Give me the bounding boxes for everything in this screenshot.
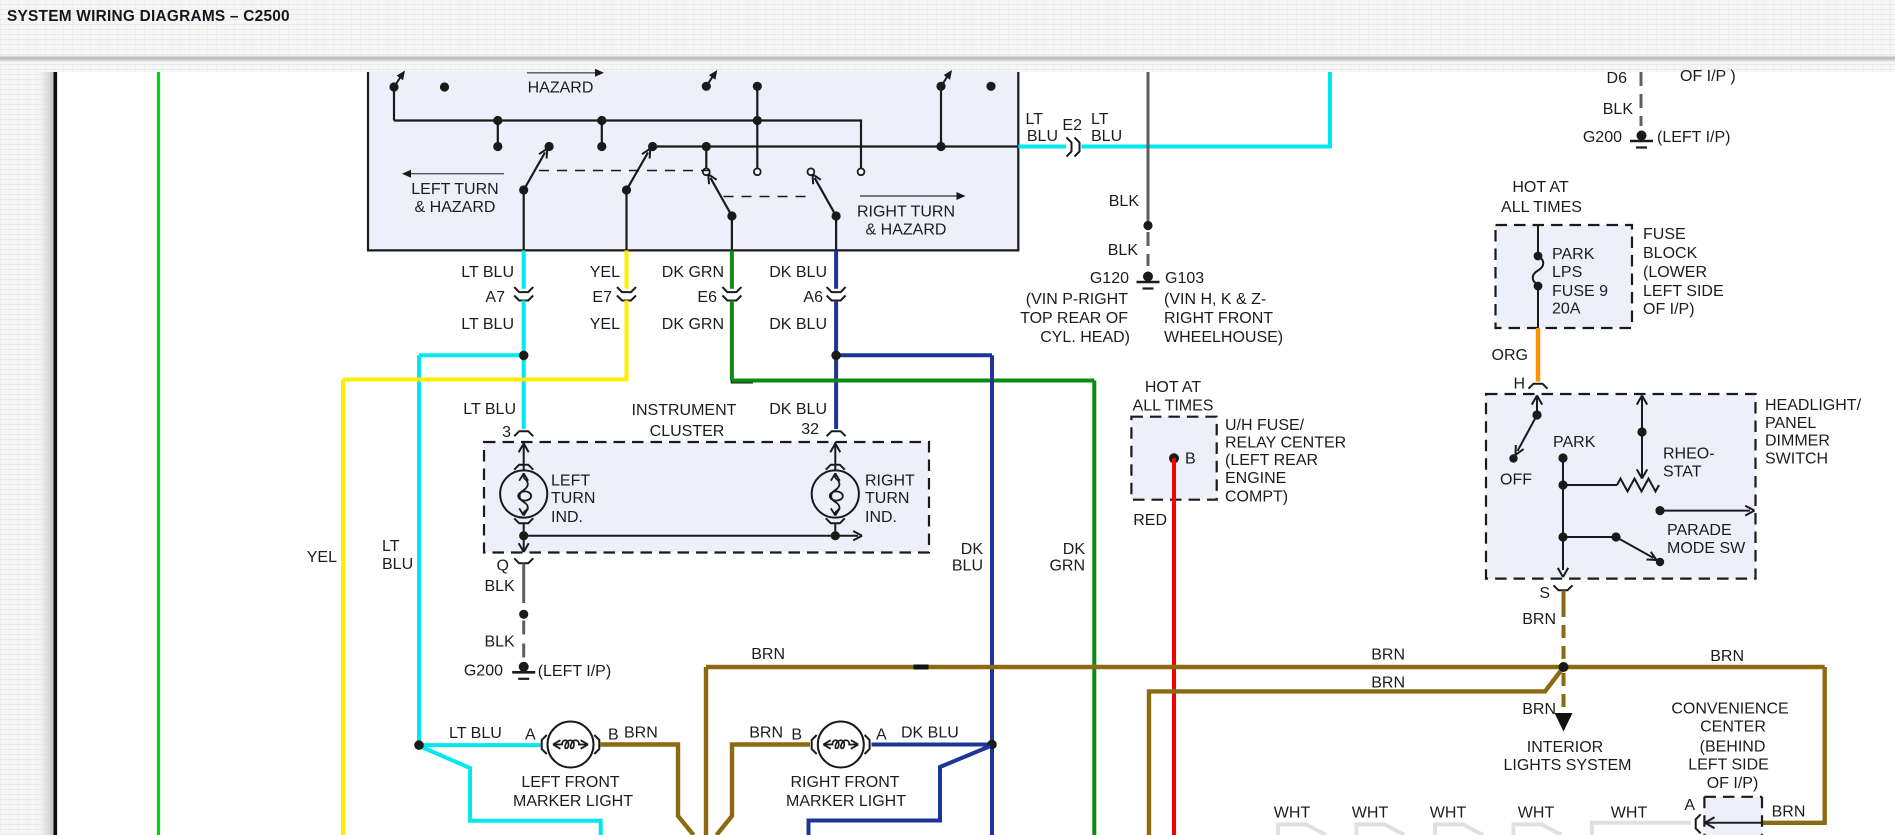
svg-text:MARKER LIGHT: MARKER LIGHT: [786, 793, 906, 810]
node: left ind lower junction: [519, 531, 528, 540]
svg-text:DK BLU: DK BLU: [769, 264, 827, 281]
wire BLK: [522, 564, 525, 604]
convenience center box: [1704, 797, 1762, 835]
svg-text:WHT: WHT: [1274, 805, 1311, 822]
svg-text:RIGHT FRONT: RIGHT FRONT: [790, 774, 899, 791]
wire DK BLU from switch: [834, 250, 838, 288]
connector E7: [617, 287, 636, 292]
svg-text:& HAZARD: & HAZARD: [415, 199, 496, 216]
svg-text:(VIN P-RIGHT: (VIN P-RIGHT: [1026, 291, 1128, 308]
wire BRN solid+dashed down: [1562, 591, 1566, 605]
svg-text:MODE SW: MODE SW: [1667, 540, 1746, 557]
svg-text:IND.: IND.: [551, 509, 583, 526]
svg-text:A: A: [525, 727, 536, 744]
wire YEL from switch: [625, 250, 629, 288]
right front marker light bulb: [812, 735, 817, 754]
wire LT BLU jog down: [421, 747, 471, 821]
svg-text:WHT: WHT: [1430, 805, 1467, 822]
right arm 2: [832, 211, 841, 220]
svg-text:RIGHT FRONT: RIGHT FRONT: [1164, 310, 1273, 327]
svg-text:RIGHT TURN: RIGHT TURN: [857, 204, 955, 221]
arm output wires: [523, 190, 525, 250]
wire BLK vertical: [1147, 72, 1150, 221]
svg-text:TURN: TURN: [865, 490, 909, 507]
wire LT BLU to marker: [419, 743, 541, 747]
svg-text:B: B: [608, 727, 619, 744]
svg-text:CLUSTER: CLUSTER: [650, 423, 725, 440]
svg-text:BLK: BLK: [1108, 242, 1139, 259]
instrument cluster box: [484, 442, 929, 553]
svg-text:E6: E6: [697, 289, 717, 306]
fuse PARK LPS FUSE 9 20A: [1537, 225, 1539, 255]
svg-text:LT BLU: LT BLU: [461, 316, 514, 333]
connector 32: [827, 431, 846, 436]
wire DK GRN from switch: [730, 250, 734, 288]
svg-text:TOP REAR OF: TOP REAR OF: [1020, 310, 1128, 327]
wire: feed to bus1: [393, 87, 395, 121]
svg-text:A: A: [1684, 797, 1695, 814]
node splice: [1143, 221, 1152, 230]
svg-text:BLU: BLU: [952, 558, 983, 575]
wire WHT stubs: [1278, 824, 1326, 835]
connector A6: [827, 287, 846, 292]
U/H fuse/relay center box: [1131, 417, 1216, 500]
node BRN splice: [1559, 662, 1569, 672]
wire YEL cross + left rail: [343, 378, 627, 382]
node: switch common: [1532, 410, 1541, 419]
wire BLK dashed: [1147, 232, 1150, 266]
svg-text:BRN: BRN: [749, 725, 783, 742]
svg-text:20A: 20A: [1552, 301, 1581, 318]
svg-text:(BEHIND: (BEHIND: [1700, 739, 1766, 756]
label HAZARD with arrow: [527, 72, 597, 74]
svg-text:TURN: TURN: [551, 490, 595, 507]
svg-text:LT: LT: [1026, 111, 1044, 128]
left margin shadow: [37, 72, 54, 835]
wire: bright green rail: [157, 72, 160, 835]
svg-text:BRN: BRN: [624, 725, 658, 742]
node DK BLU junction at marker: [987, 740, 997, 750]
svg-text:3: 3: [502, 424, 511, 441]
OFF arm: [1518, 415, 1538, 451]
node B: [1169, 453, 1179, 463]
svg-text:CYL. HEAD): CYL. HEAD): [1040, 329, 1130, 346]
svg-text:ALL TIMES: ALL TIMES: [1501, 199, 1582, 216]
svg-text:S: S: [1539, 585, 1550, 602]
svg-text:DK GRN: DK GRN: [662, 264, 724, 281]
wire ORG: [1536, 328, 1540, 382]
wire BRN bus: [706, 665, 1825, 669]
svg-text:(LEFT REAR: (LEFT REAR: [1225, 452, 1318, 469]
svg-text:ALL TIMES: ALL TIMES: [1133, 398, 1214, 415]
svg-text:CONVENIENCE: CONVENIENCE: [1671, 701, 1788, 718]
ground G200 left I/P: [519, 662, 529, 672]
svg-text:32: 32: [801, 421, 819, 438]
black tick on bus: [914, 665, 929, 670]
svg-text:BLOCK: BLOCK: [1643, 245, 1698, 262]
svg-text:WHT: WHT: [1352, 805, 1389, 822]
svg-text:YEL: YEL: [307, 549, 337, 566]
svg-text:LEFT SIDE: LEFT SIDE: [1688, 757, 1769, 774]
svg-text:LEFT: LEFT: [551, 473, 590, 490]
svg-text:Q: Q: [497, 558, 509, 575]
svg-text:BLU: BLU: [1091, 128, 1122, 145]
svg-text:G200: G200: [464, 663, 503, 680]
node LT BLU split: [414, 740, 424, 750]
open contact (no wire): [808, 168, 815, 175]
svg-text:DK GRN: DK GRN: [662, 316, 724, 333]
fuse block box: [1496, 225, 1633, 328]
svg-text:G200: G200: [1583, 129, 1622, 146]
svg-text:LT: LT: [382, 538, 400, 555]
svg-text:H: H: [1513, 376, 1525, 393]
svg-text:BRN: BRN: [1710, 648, 1744, 665]
mechanical linkage dashes: [539, 170, 710, 172]
svg-text:DK BLU: DK BLU: [769, 401, 827, 418]
node rheostat tap: [1558, 480, 1567, 489]
svg-text:RHEO-: RHEO-: [1663, 446, 1715, 463]
hazard feed dot + arm (top left): [389, 82, 398, 91]
svg-text:OFF: OFF: [1500, 472, 1532, 489]
rheostat wiper arrow: [1641, 397, 1643, 477]
svg-text:BRN: BRN: [1772, 804, 1806, 821]
svg-text:BRN: BRN: [1522, 611, 1556, 628]
connector 3: [514, 431, 533, 436]
svg-text:BRN: BRN: [1522, 701, 1556, 718]
arrow into convenience center: [1707, 822, 1763, 824]
svg-text:A6: A6: [803, 289, 823, 306]
svg-text:PARADE: PARADE: [1667, 522, 1732, 539]
svg-text:B: B: [1185, 451, 1196, 468]
svg-text:ENGINE: ENGINE: [1225, 470, 1286, 487]
svg-text:A: A: [876, 727, 887, 744]
wire DK BLU from right marker: [872, 743, 993, 747]
svg-text:COMPT): COMPT): [1225, 489, 1288, 506]
svg-text:DK: DK: [1063, 541, 1086, 558]
svg-text:RED: RED: [1133, 512, 1167, 529]
svg-text:OF I/P): OF I/P): [1707, 775, 1759, 792]
svg-text:FUSE: FUSE: [1643, 226, 1686, 243]
wire LT BLU to E2: [1018, 145, 1066, 149]
svg-text:BLK: BLK: [1109, 193, 1140, 210]
turn/hazard switch box: [368, 71, 1018, 250]
bus1 junction dots: [493, 116, 502, 125]
svg-text:OF I/P): OF I/P): [1643, 301, 1695, 318]
wire WHT to convenience center: [1592, 823, 1691, 835]
input arrow from H: [1536, 397, 1538, 415]
svg-text:G120: G120: [1090, 270, 1129, 287]
svg-text:DK: DK: [961, 541, 984, 558]
svg-text:PANEL: PANEL: [1765, 415, 1816, 432]
svg-text:WHEELHOUSE): WHEELHOUSE): [1164, 329, 1283, 346]
svg-text:LEFT TURN: LEFT TURN: [411, 181, 498, 198]
wire LT BLU up to page top: [1082, 72, 1331, 147]
output arrow S: [1563, 568, 1568, 577]
svg-text:RELAY CENTER: RELAY CENTER: [1225, 435, 1346, 452]
wire LT BLU branch left: [419, 353, 524, 357]
connector E2: [1067, 138, 1072, 157]
wire LT BLU down-left rail: [417, 355, 421, 747]
svg-text:INSTRUMENT: INSTRUMENT: [632, 402, 737, 419]
svg-text:GRN: GRN: [1049, 558, 1085, 575]
svg-text:HAZARD: HAZARD: [528, 80, 594, 97]
svg-text:LT BLU: LT BLU: [449, 725, 502, 742]
connector A7: [514, 287, 533, 292]
ground G200 right: [1637, 131, 1647, 141]
svg-text:E2: E2: [1062, 117, 1082, 134]
svg-text:(LEFT I/P): (LEFT I/P): [538, 663, 612, 680]
bus2: [653, 145, 1019, 147]
hazard arm (right): [936, 82, 945, 91]
svg-text:HOT AT: HOT AT: [1145, 379, 1202, 396]
page left border: [54, 72, 58, 835]
svg-text:LIGHTS SYSTEM: LIGHTS SYSTEM: [1503, 757, 1631, 774]
bus1: [394, 119, 861, 121]
groove band: [0, 56, 1895, 62]
svg-text:U/H FUSE/: U/H FUSE/: [1225, 417, 1305, 434]
label LEFT TURN & HAZARD with arrow: [409, 173, 504, 175]
cluster entry at 523.7: [523, 442, 525, 470]
node splice: [519, 610, 528, 619]
wire DK GRN cross + right rail: [732, 379, 1094, 383]
svg-text:PARK: PARK: [1552, 246, 1595, 263]
wire LT BLU from switch: [522, 250, 526, 288]
svg-text:STAT: STAT: [1663, 464, 1702, 481]
svg-text:D6: D6: [1607, 70, 1628, 87]
svg-text:YEL: YEL: [590, 316, 620, 333]
svg-text:DK BLU: DK BLU: [769, 316, 827, 333]
svg-text:BLK: BLK: [484, 634, 515, 651]
bus1 corner down to open contact: [860, 119, 862, 168]
wire BRN bus left leg down: [704, 667, 708, 835]
stub contacts from bus1: [497, 121, 499, 147]
down arrow to cluster edge (left): [523, 536, 525, 551]
svg-text:BRN: BRN: [1371, 647, 1405, 664]
node: right ind lower junction: [831, 531, 840, 540]
svg-text:PARK: PARK: [1553, 434, 1596, 451]
svg-text:CENTER: CENTER: [1700, 719, 1766, 736]
svg-text:(VIN H, K & Z-: (VIN H, K & Z-: [1164, 291, 1266, 308]
svg-text:FUSE 9: FUSE 9: [1552, 283, 1608, 300]
svg-text:BRN: BRN: [1371, 675, 1405, 692]
turn indicator bulb at 835.3: [812, 470, 859, 517]
wire BLK dashed D6: [1640, 72, 1643, 126]
svg-text:SYSTEM WIRING DIAGRAMS – C2500: SYSTEM WIRING DIAGRAMS – C2500: [7, 8, 290, 25]
svg-text:B: B: [791, 727, 802, 744]
wire BRN bus corner down to convenience center: [1763, 667, 1825, 823]
svg-text:WHT: WHT: [1518, 805, 1555, 822]
svg-text:BRN: BRN: [751, 646, 785, 663]
parade mode contact + arrow: [1655, 506, 1664, 515]
stub from bus2 to open contact: [705, 147, 707, 169]
left turn arm 2: [622, 185, 631, 194]
ground G120/G103: [1143, 272, 1153, 282]
svg-text:E7: E7: [592, 289, 612, 306]
svg-text:ORG: ORG: [1492, 347, 1528, 364]
svg-text:(LEFT I/P): (LEFT I/P): [1657, 129, 1731, 146]
svg-text:BLK: BLK: [1603, 101, 1634, 118]
svg-text:DIMMER: DIMMER: [1765, 433, 1830, 450]
turn indicator bulb at 523.7: [500, 470, 547, 517]
svg-text:& HAZARD: & HAZARD: [866, 222, 947, 239]
svg-text:LEFT FRONT: LEFT FRONT: [521, 774, 620, 791]
svg-text:RIGHT: RIGHT: [865, 473, 915, 490]
lower contact + arm: [1558, 532, 1567, 541]
hazard arm dot (mid): [702, 82, 711, 91]
svg-text:BLU: BLU: [382, 556, 413, 573]
right arm 1: [727, 211, 736, 220]
svg-text:A7: A7: [485, 289, 505, 306]
headlight/panel dimmer switch box: [1486, 394, 1756, 579]
svg-text:IND.: IND.: [865, 509, 897, 526]
svg-text:INTERIOR: INTERIOR: [1527, 739, 1603, 756]
svg-text:HOT AT: HOT AT: [1512, 179, 1569, 196]
svg-text:LT BLU: LT BLU: [463, 401, 516, 418]
connector A: [1696, 814, 1701, 833]
svg-text:LT BLU: LT BLU: [461, 264, 514, 281]
PARK contact dot: [1558, 453, 1567, 462]
cluster entry at 835.3: [834, 442, 836, 470]
svg-text:HEADLIGHT/: HEADLIGHT/: [1765, 397, 1862, 414]
svg-text:SWITCH: SWITCH: [1765, 451, 1828, 468]
svg-text:MARKER LIGHT: MARKER LIGHT: [513, 793, 633, 810]
wire BRN from right marker: [717, 745, 811, 835]
svg-text:G103: G103: [1165, 270, 1204, 287]
arrow continuing right: [835, 535, 858, 537]
contact dot: [440, 82, 449, 91]
wire between indicator grounds: [524, 535, 836, 537]
left turn arm 1: [519, 185, 528, 194]
wire DK BLU cross right: [836, 353, 992, 357]
interior lights arrow: [1555, 713, 1573, 732]
left front marker light bulb: [542, 735, 547, 754]
svg-text:LEFT SIDE: LEFT SIDE: [1643, 283, 1724, 300]
svg-text:YEL: YEL: [590, 264, 620, 281]
black corner under green: [732, 362, 753, 382]
wire park chain: [1562, 458, 1564, 570]
wire BRN from left marker: [601, 745, 694, 835]
rheostat: [1563, 484, 1617, 486]
wire: top contact through bus1 to open contact: [753, 82, 762, 91]
arm target contacts: [545, 142, 554, 151]
wire BRN second bus: [1149, 669, 1563, 835]
svg-text:WHT: WHT: [1611, 805, 1648, 822]
label RIGHT TURN & HAZARD with arrow: [860, 195, 958, 197]
wire BRN dashed to interior lights: [1562, 673, 1566, 712]
svg-text:BLK: BLK: [484, 578, 515, 595]
wire DK BLU jog down-left: [940, 746, 991, 821]
wire BLK dashed: [522, 621, 525, 660]
svg-text:BLU: BLU: [1027, 128, 1058, 145]
svg-text:DK BLU: DK BLU: [901, 725, 959, 742]
wire RED: [1172, 458, 1176, 835]
svg-text:LPS: LPS: [1552, 264, 1582, 281]
connector E6: [722, 287, 741, 292]
svg-text:(LOWER: (LOWER: [1643, 264, 1707, 281]
svg-text:LT: LT: [1091, 111, 1109, 128]
svg-text:OF I/P ): OF I/P ): [1680, 68, 1736, 85]
node LT BLU junction: [519, 351, 529, 361]
